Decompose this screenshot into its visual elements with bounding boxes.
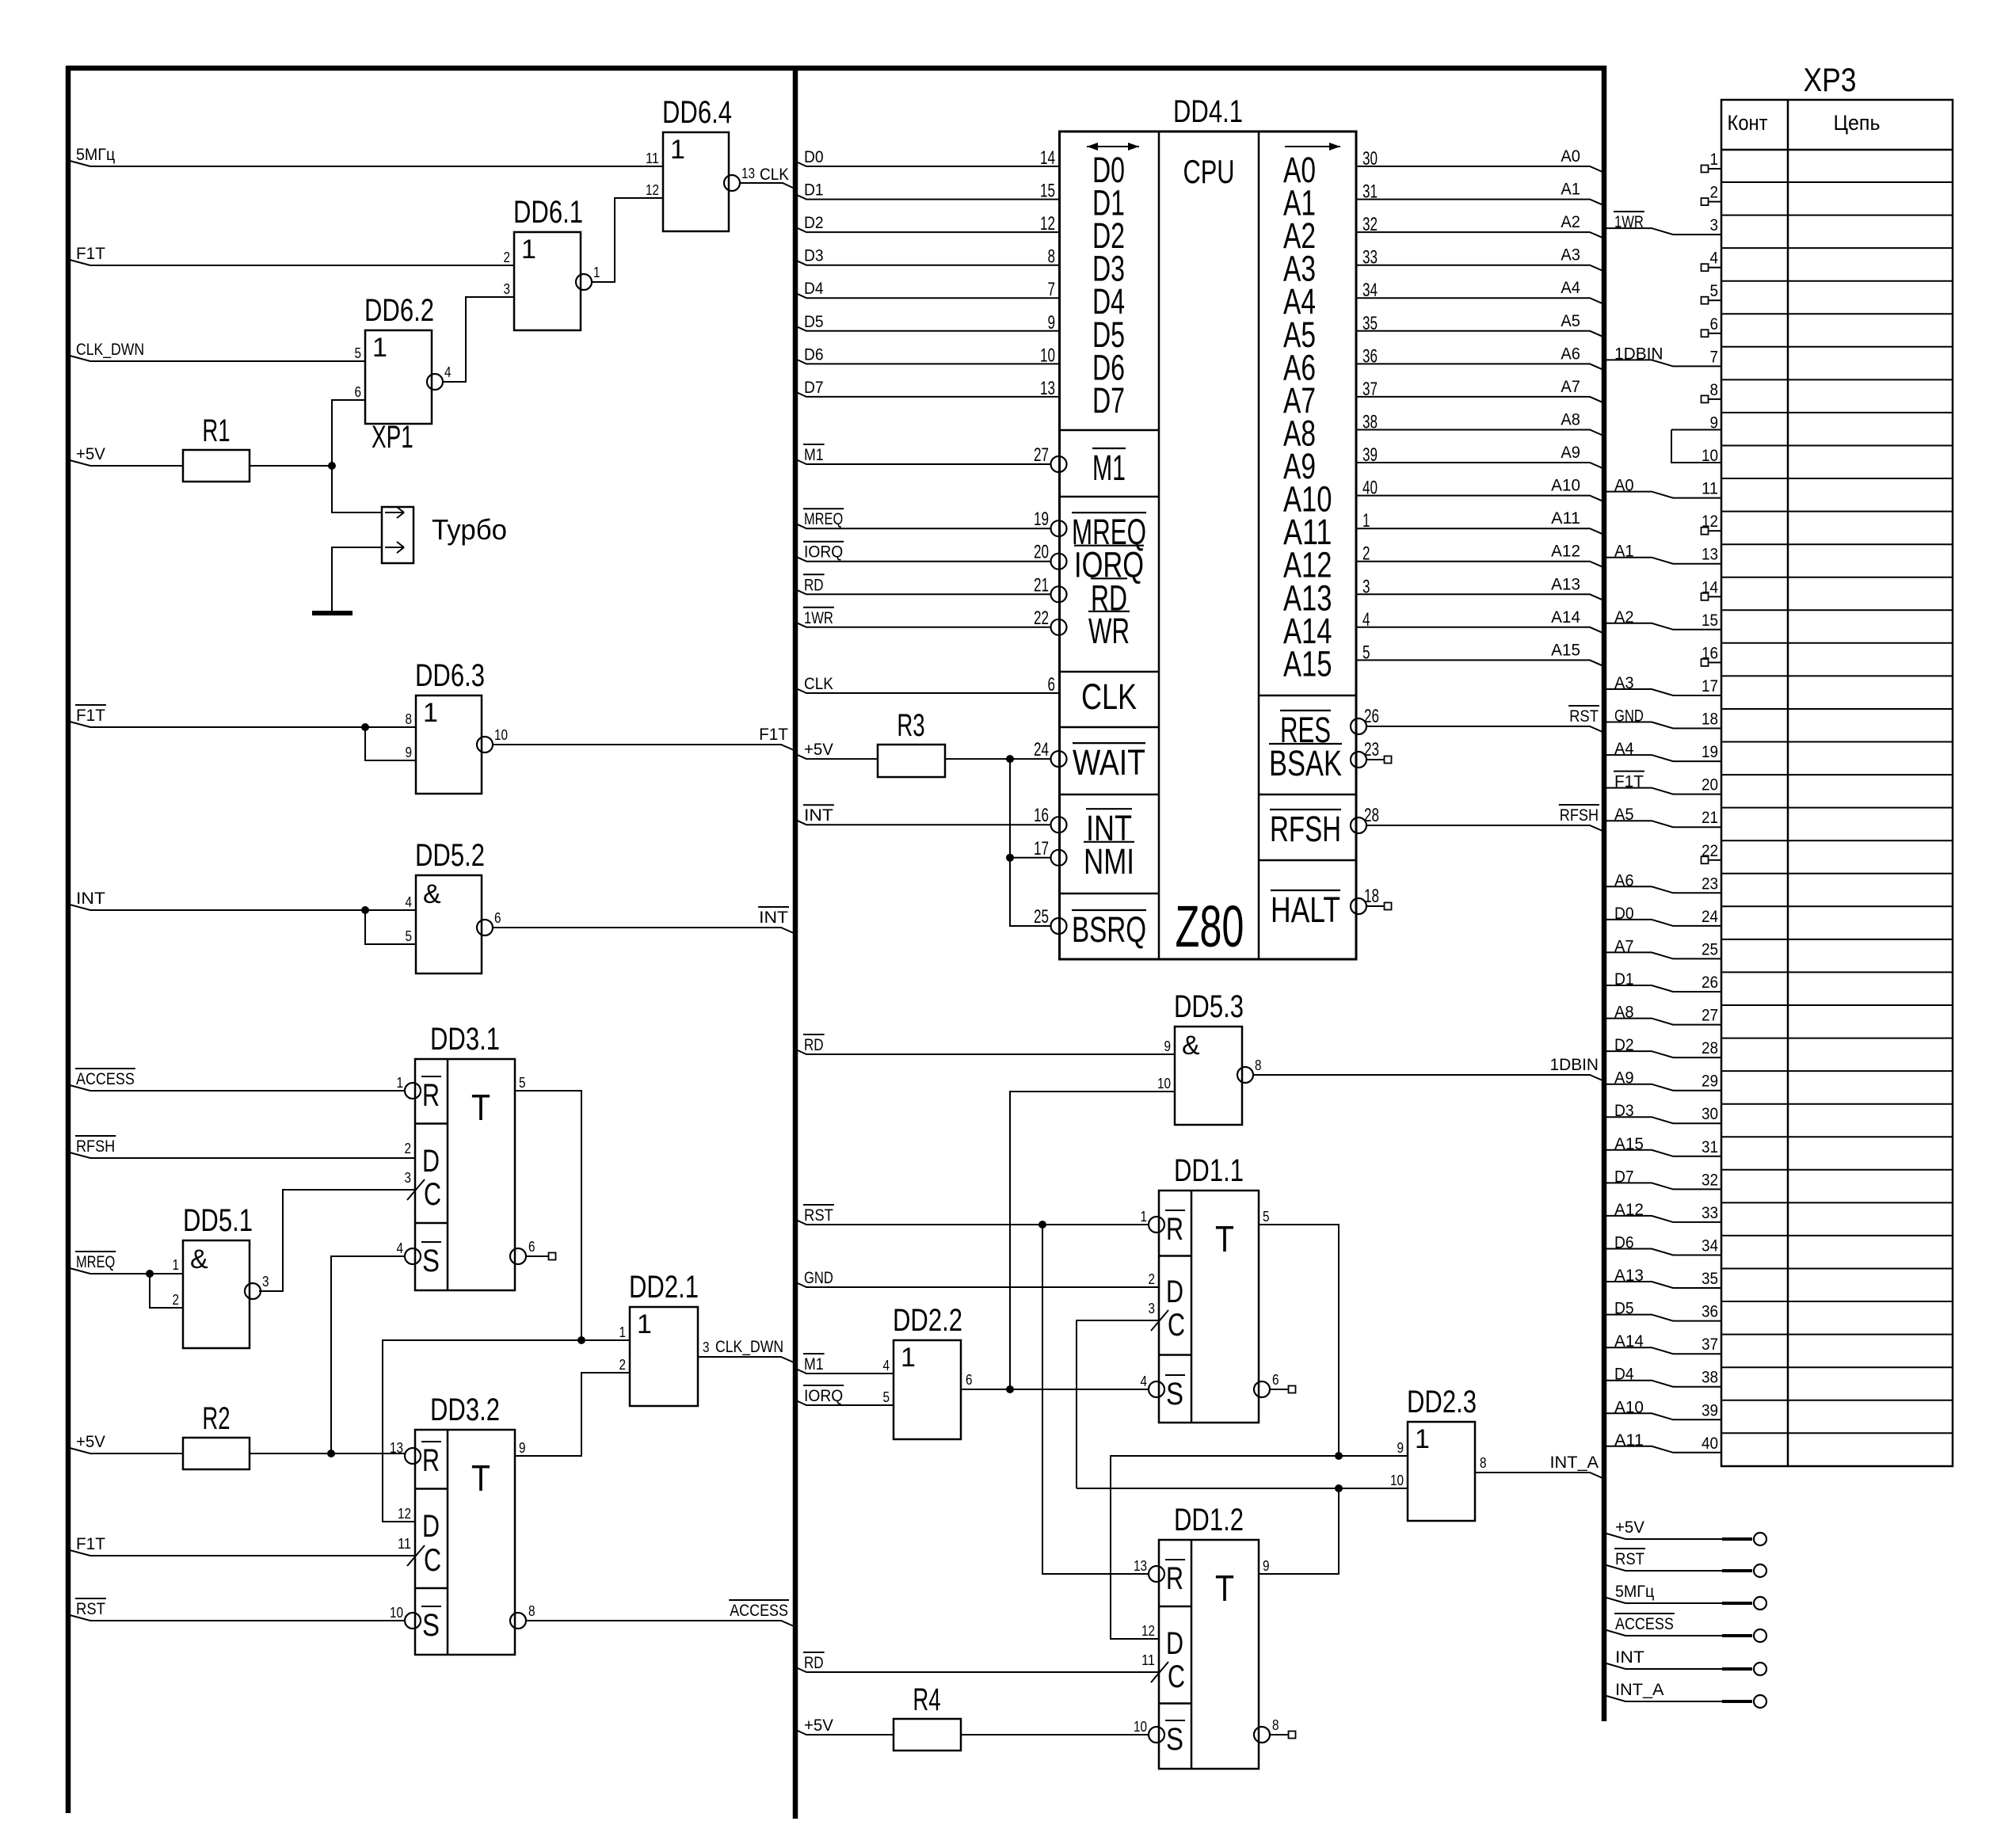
svg-text:10: 10 xyxy=(390,1605,403,1621)
resistor R3 xyxy=(878,745,945,777)
terminal circle INT_A xyxy=(1754,1695,1766,1708)
DD1.2 inverse output pin 8 xyxy=(1254,1727,1270,1743)
svg-text:30: 30 xyxy=(1702,1105,1718,1123)
svg-text:T: T xyxy=(471,1087,490,1128)
wire DD6.4 out to middle bus (CLK) xyxy=(740,183,795,189)
svg-text:A14: A14 xyxy=(1551,608,1580,627)
wire HALT stub xyxy=(1366,905,1385,907)
gate DD2.3 (1) xyxy=(1408,1422,1475,1521)
svg-text:ACCESS: ACCESS xyxy=(1615,1615,1674,1633)
svg-text:XP1: XP1 xyxy=(372,420,413,455)
svg-text:28: 28 xyxy=(1364,805,1379,826)
middle bus xyxy=(793,66,798,1819)
wire GND xyxy=(798,1283,1159,1287)
svg-text:D2: D2 xyxy=(804,214,824,232)
junction DD2.2 out / DD5.3 pin 10 xyxy=(1006,1385,1014,1393)
svg-text:R1: R1 xyxy=(202,413,230,448)
resistor R2 xyxy=(183,1438,250,1469)
CPU right column section dividers xyxy=(1259,695,1356,697)
svg-text:M1: M1 xyxy=(804,446,824,464)
svg-text:8: 8 xyxy=(1480,1455,1487,1471)
svg-text:13: 13 xyxy=(1134,1558,1147,1574)
gate DD6.1 (inverter) xyxy=(514,232,581,330)
svg-text:A4: A4 xyxy=(1561,279,1580,297)
svg-text:D1: D1 xyxy=(804,181,824,200)
svg-text:20: 20 xyxy=(1702,776,1718,794)
wire 1WR xyxy=(798,623,1050,627)
svg-text:CPU: CPU xyxy=(1183,153,1234,190)
wire MREQ xyxy=(70,1268,183,1274)
svg-text:5: 5 xyxy=(519,1075,526,1091)
svg-text:18: 18 xyxy=(1702,711,1718,729)
svg-text:16: 16 xyxy=(1702,644,1718,662)
resistor R4 xyxy=(894,1719,961,1751)
junction INT xyxy=(361,906,369,914)
svg-text:A12: A12 xyxy=(1551,543,1580,561)
svg-text:A6: A6 xyxy=(1561,345,1580,363)
flip-flop DD1.2 xyxy=(1159,1540,1259,1769)
svg-text:DD1.1: DD1.1 xyxy=(1174,1153,1244,1188)
svg-text:CLK_DWN: CLK_DWN xyxy=(715,1338,783,1356)
svg-text:5: 5 xyxy=(406,928,413,944)
wire DD6.2 out to DD6.1 pin 3 xyxy=(443,297,514,382)
flip-flop DD3.2 xyxy=(415,1430,515,1655)
gate DD5.1 (AND-NOT) xyxy=(183,1240,250,1348)
wire +5V junction to XP1 pin 1 xyxy=(332,466,382,512)
svg-text:DD2.3: DD2.3 xyxy=(1407,1385,1477,1419)
svg-text:32: 32 xyxy=(1702,1171,1718,1189)
wire DD1.1 C from Q line xyxy=(1077,1320,1159,1488)
svg-text:A11: A11 xyxy=(1551,509,1580,528)
wire RST down to DD1.2 pin 13 xyxy=(1042,1225,1149,1574)
junction DD2.1 pin1 xyxy=(577,1336,585,1344)
svg-text:DD6.1: DD6.1 xyxy=(513,195,583,230)
svg-text:9: 9 xyxy=(519,1440,526,1456)
svg-text:DD2.2: DD2.2 xyxy=(893,1303,962,1338)
svg-text:INT_A: INT_A xyxy=(1550,1454,1599,1472)
svg-text:3: 3 xyxy=(1149,1301,1156,1316)
wire D5 xyxy=(798,327,1060,331)
inversion bubble DD5.2 out xyxy=(477,920,493,935)
svg-text:R2: R2 xyxy=(202,1401,230,1436)
wire branch to DD3.2 pin 12 (D) xyxy=(383,1340,581,1522)
svg-text:9: 9 xyxy=(1263,1558,1270,1574)
svg-text:24: 24 xyxy=(1034,739,1049,760)
svg-text:DD3.1: DD3.1 xyxy=(430,1022,500,1057)
inversion bubble DD5.1 out xyxy=(245,1283,261,1299)
wire R1 to junction xyxy=(250,465,332,467)
svg-text:DD3.2: DD3.2 xyxy=(430,1393,500,1427)
svg-text:RD: RD xyxy=(804,1654,824,1672)
svg-text:BSAK: BSAK xyxy=(1269,743,1342,783)
junction RST xyxy=(1038,1221,1046,1229)
svg-text:RST: RST xyxy=(804,1206,833,1225)
wire F1T xyxy=(493,745,794,750)
svg-text:5: 5 xyxy=(883,1389,890,1405)
svg-text:8: 8 xyxy=(1710,381,1719,399)
svg-text:RFSH: RFSH xyxy=(1270,809,1341,849)
svg-text:17: 17 xyxy=(1034,838,1049,859)
wire DD5.1 out to DD3.1 C pin 3 xyxy=(259,1190,415,1291)
inversion bubble DD5.3 out xyxy=(1237,1067,1253,1083)
svg-text:2: 2 xyxy=(1149,1271,1156,1287)
svg-text:A15: A15 xyxy=(1283,643,1332,684)
svg-text:36: 36 xyxy=(1702,1303,1718,1321)
svg-text:16: 16 xyxy=(1034,805,1049,826)
svg-text:5: 5 xyxy=(1710,282,1719,300)
svg-text:8: 8 xyxy=(1272,1717,1279,1733)
wire +5V to R3 xyxy=(798,755,878,759)
gate DD6.2 (inverter) xyxy=(365,330,432,424)
svg-text:DD6.3: DD6.3 xyxy=(415,658,485,693)
inversion bubble DD6.4 out xyxy=(724,175,740,191)
svg-text:25: 25 xyxy=(1702,940,1718,958)
svg-text:5МГц: 5МГц xyxy=(1615,1583,1654,1601)
wire DD3.2 pin 9 to DD2.1 pin 2 xyxy=(515,1373,630,1456)
wire M1 xyxy=(798,1370,894,1374)
wire 5МГц xyxy=(70,161,663,166)
wire D6 xyxy=(798,360,1060,364)
XP1 pin 2 arrow xyxy=(385,547,404,548)
svg-text:RD: RD xyxy=(804,576,824,594)
svg-text:5: 5 xyxy=(355,345,362,361)
CPU left column section dividers xyxy=(1060,429,1160,432)
wire IORQ xyxy=(798,558,1050,562)
terminal circle RST xyxy=(1754,1564,1766,1577)
svg-text:12: 12 xyxy=(1141,1623,1155,1639)
wire R4 to DD1.2 pin 10 xyxy=(961,1734,1149,1735)
connector XP3 table xyxy=(1721,100,1953,1466)
svg-text:D4: D4 xyxy=(804,280,824,298)
svg-text:R4: R4 xyxy=(913,1682,940,1717)
svg-text:R: R xyxy=(1166,1561,1183,1596)
svg-text:9: 9 xyxy=(406,745,413,760)
svg-text:1: 1 xyxy=(1141,1209,1148,1225)
address bus arrow xyxy=(1285,146,1340,147)
svg-text:Z80: Z80 xyxy=(1176,893,1244,959)
svg-text:12: 12 xyxy=(398,1506,411,1522)
svg-text:WR: WR xyxy=(1088,611,1130,651)
wire 1DBIN xyxy=(1253,1075,1603,1080)
svg-text:R3: R3 xyxy=(897,708,924,743)
svg-text:10: 10 xyxy=(1134,1719,1147,1735)
svg-text:WAIT: WAIT xyxy=(1073,742,1145,783)
svg-text:34: 34 xyxy=(1702,1237,1718,1255)
svg-text:11: 11 xyxy=(1702,480,1718,498)
wire 5МГц xyxy=(1606,1598,1722,1603)
gate DD2.1 (1) xyxy=(630,1307,698,1406)
svg-text:ACCESS: ACCESS xyxy=(76,1070,135,1088)
svg-text:R: R xyxy=(1166,1212,1183,1247)
wire D3 xyxy=(798,261,1060,265)
svg-text:35: 35 xyxy=(1702,1270,1718,1288)
svg-text:6: 6 xyxy=(1048,674,1056,695)
svg-text:39: 39 xyxy=(1702,1401,1718,1419)
svg-text:4: 4 xyxy=(406,894,413,910)
svg-text:18: 18 xyxy=(1364,886,1379,907)
svg-text:D5: D5 xyxy=(804,313,824,331)
wire DD1.2 pin 9 up to pin10 line xyxy=(1259,1488,1339,1574)
svg-text:13: 13 xyxy=(1702,546,1718,564)
svg-text:C: C xyxy=(1168,1659,1185,1694)
svg-text:F1T: F1T xyxy=(759,726,788,744)
svg-text:A0: A0 xyxy=(1561,147,1580,166)
wire DD3.1 pin5 to DD2.1 pin 1 and DD3.2 D xyxy=(515,1091,630,1340)
svg-text:21: 21 xyxy=(1702,809,1718,827)
wire RD xyxy=(798,1050,1175,1054)
svg-text:9: 9 xyxy=(1397,1440,1404,1456)
svg-text:15: 15 xyxy=(1040,181,1055,202)
svg-text:IORQ: IORQ xyxy=(804,543,843,562)
junction NMI xyxy=(1006,854,1014,862)
svg-text:C: C xyxy=(424,1543,441,1578)
wire RFSH xyxy=(70,1153,415,1158)
wire MREQ to pin 2 xyxy=(150,1274,183,1308)
svg-text:1: 1 xyxy=(521,234,536,265)
svg-text:8: 8 xyxy=(528,1603,535,1619)
svg-text:7: 7 xyxy=(1048,279,1056,300)
wire IORQ xyxy=(798,1401,894,1405)
svg-text:4: 4 xyxy=(1710,250,1719,268)
svg-text:T: T xyxy=(471,1457,490,1499)
svg-text:Конт: Конт xyxy=(1728,111,1768,135)
wire RST xyxy=(1366,726,1603,732)
svg-text:4: 4 xyxy=(444,364,452,380)
svg-text:C: C xyxy=(424,1177,441,1212)
junction F1T xyxy=(361,723,369,731)
svg-text:RST: RST xyxy=(1569,707,1599,726)
svg-text:+5V: +5V xyxy=(804,1716,833,1735)
svg-text:8: 8 xyxy=(406,711,413,727)
svg-text:Цепь: Цепь xyxy=(1834,111,1881,135)
svg-text:+5V: +5V xyxy=(804,741,833,759)
wire MREQ xyxy=(798,524,1050,528)
svg-text:M1: M1 xyxy=(804,1355,824,1374)
svg-text:INT: INT xyxy=(76,890,105,908)
svg-text:5МГц: 5МГц xyxy=(76,146,115,164)
svg-text:MREQ: MREQ xyxy=(76,1253,115,1271)
svg-text:23: 23 xyxy=(1364,739,1379,760)
wire INT xyxy=(1606,1663,1722,1669)
svg-text:12: 12 xyxy=(1040,213,1055,234)
svg-text:2: 2 xyxy=(173,1292,180,1308)
svg-text:S: S xyxy=(1166,1722,1183,1757)
DD3.2 inverse output pin 8 xyxy=(510,1613,526,1629)
wire RD xyxy=(798,590,1050,594)
terminal circle ACCESS xyxy=(1754,1629,1766,1642)
wire F1T to pin 9 xyxy=(365,727,416,760)
svg-text:RD: RD xyxy=(804,1036,824,1054)
svg-text:1: 1 xyxy=(619,1324,627,1340)
svg-text:20: 20 xyxy=(1034,542,1049,563)
svg-text:&: & xyxy=(190,1244,208,1274)
svg-text:1WR: 1WR xyxy=(804,609,833,627)
wire RST xyxy=(1606,1565,1722,1571)
junction on pin10 line xyxy=(1335,1484,1343,1492)
flip-flop DD3.1 xyxy=(415,1059,515,1290)
svg-text:A3: A3 xyxy=(1561,246,1580,265)
svg-text:DD6.2: DD6.2 xyxy=(364,293,434,328)
wire F1T xyxy=(70,722,416,727)
svg-text:C: C xyxy=(1168,1308,1185,1343)
svg-text:A9: A9 xyxy=(1561,444,1580,462)
svg-text:D0: D0 xyxy=(804,148,824,166)
svg-text:8: 8 xyxy=(1048,246,1056,268)
svg-text:28: 28 xyxy=(1702,1039,1718,1057)
svg-text:D: D xyxy=(1166,1626,1183,1661)
svg-text:3: 3 xyxy=(1710,216,1719,234)
XP1 pin 1 arrow xyxy=(385,512,404,513)
svg-text:D7: D7 xyxy=(804,379,824,397)
svg-text:3: 3 xyxy=(504,281,511,297)
svg-text:A10: A10 xyxy=(1551,477,1580,495)
junction MREQ xyxy=(146,1270,154,1278)
wire M1 xyxy=(798,460,1050,464)
wire ACCESS xyxy=(1606,1630,1722,1636)
wire D0 xyxy=(798,162,1060,166)
svg-text:10: 10 xyxy=(1040,345,1055,366)
svg-text:13: 13 xyxy=(741,166,755,181)
data bus bidirectional arrow xyxy=(1087,146,1139,147)
svg-text:T: T xyxy=(1215,1568,1234,1609)
svg-text:2: 2 xyxy=(504,250,511,265)
svg-text:XP3: XP3 xyxy=(1804,61,1857,98)
svg-text:4: 4 xyxy=(397,1240,404,1256)
svg-text:F1T: F1T xyxy=(76,245,105,263)
svg-text:BSRQ: BSRQ xyxy=(1072,909,1146,950)
svg-text:F1T: F1T xyxy=(76,707,105,725)
svg-text:INT: INT xyxy=(759,909,788,927)
wire INT_A xyxy=(1475,1473,1603,1478)
svg-text:17: 17 xyxy=(1702,677,1718,695)
svg-text:6: 6 xyxy=(1272,1372,1279,1388)
wire INT xyxy=(798,821,1050,825)
svg-text:NMI: NMI xyxy=(1084,841,1134,882)
svg-text:6: 6 xyxy=(528,1239,535,1255)
wire +5V to R4 xyxy=(798,1731,894,1735)
svg-text:INT: INT xyxy=(1615,1648,1644,1667)
svg-text:1: 1 xyxy=(637,1309,652,1339)
wire BSAK stub xyxy=(1366,759,1385,760)
svg-text:+5V: +5V xyxy=(76,445,105,463)
wire +5V xyxy=(70,1448,183,1454)
svg-text:MREQ: MREQ xyxy=(804,510,843,528)
svg-text:D7: D7 xyxy=(1092,380,1125,421)
DD3.1 inverse output pin 6 xyxy=(510,1248,526,1264)
svg-text:25: 25 xyxy=(1034,906,1049,928)
svg-text:23: 23 xyxy=(1702,874,1718,893)
svg-text:1: 1 xyxy=(901,1343,916,1373)
svg-text:13: 13 xyxy=(1040,378,1055,399)
inversion bubble DD6.1 out xyxy=(576,274,592,290)
svg-text:M1: M1 xyxy=(1092,448,1126,488)
svg-text:22: 22 xyxy=(1702,842,1718,860)
wire DD2.1 out to middle bus xyxy=(698,1357,794,1362)
right bus xyxy=(1602,66,1607,1721)
wire RST xyxy=(70,1615,405,1621)
svg-text:21: 21 xyxy=(1034,574,1049,596)
inversion bubble DD6.2 out xyxy=(427,374,443,390)
gate DD6.3 (inverter) xyxy=(416,695,482,794)
svg-text:1: 1 xyxy=(1710,150,1719,169)
svg-text:38: 38 xyxy=(1702,1369,1718,1387)
wire D4 xyxy=(798,294,1060,298)
svg-text:7: 7 xyxy=(1710,348,1719,366)
inversion bubble DD6.3 out xyxy=(477,737,493,752)
wire R2 to DD3.2 pin 13 xyxy=(250,1453,405,1454)
svg-text:R: R xyxy=(422,1078,440,1113)
svg-text:A1: A1 xyxy=(1561,181,1580,199)
svg-text:ACCESS: ACCESS xyxy=(730,1602,788,1620)
svg-text:2: 2 xyxy=(1710,184,1719,202)
square terminal DD3.1 pin 6 xyxy=(526,1255,549,1257)
svg-text:DD5.1: DD5.1 xyxy=(183,1203,253,1238)
svg-text:&: & xyxy=(423,879,441,909)
svg-text:DD5.2: DD5.2 xyxy=(415,838,485,873)
wire RFSH xyxy=(1366,825,1603,831)
svg-text:27: 27 xyxy=(1034,444,1049,466)
svg-text:A2: A2 xyxy=(1561,213,1580,231)
svg-text:6: 6 xyxy=(494,910,501,926)
svg-text:14: 14 xyxy=(1040,147,1055,169)
svg-text:5: 5 xyxy=(1263,1209,1270,1225)
svg-text:14: 14 xyxy=(1702,578,1718,596)
svg-text:1: 1 xyxy=(593,265,600,280)
svg-text:2: 2 xyxy=(405,1141,412,1156)
terminal circle +5V xyxy=(1754,1533,1766,1545)
svg-text:A15: A15 xyxy=(1551,641,1580,659)
svg-text:13: 13 xyxy=(390,1440,403,1456)
svg-text:GND: GND xyxy=(804,1269,833,1287)
svg-text:2: 2 xyxy=(619,1357,627,1373)
svg-text:4: 4 xyxy=(1141,1374,1148,1389)
wire +5V xyxy=(70,460,183,466)
wire F1T xyxy=(70,260,514,265)
svg-text:24: 24 xyxy=(1702,908,1718,926)
svg-text:D: D xyxy=(1166,1274,1183,1309)
gate DD5.2 (AND-NOT) xyxy=(416,875,482,973)
svg-text:6: 6 xyxy=(1710,315,1719,333)
svg-text:+5V: +5V xyxy=(1615,1518,1644,1537)
svg-text:31: 31 xyxy=(1702,1138,1718,1156)
connector XP1 xyxy=(382,507,413,563)
svg-text:6: 6 xyxy=(966,1372,973,1388)
svg-text:DD5.3: DD5.3 xyxy=(1174,989,1244,1024)
svg-text:29: 29 xyxy=(1702,1073,1718,1091)
svg-text:1: 1 xyxy=(423,698,438,728)
svg-text:INT: INT xyxy=(804,806,833,825)
svg-text:CLK_DWN: CLK_DWN xyxy=(76,341,144,359)
svg-text:9: 9 xyxy=(1164,1038,1172,1054)
svg-text:19: 19 xyxy=(1702,743,1718,761)
svg-text:3: 3 xyxy=(703,1339,710,1355)
wire RST xyxy=(798,1221,1149,1225)
svg-text:RFSH: RFSH xyxy=(76,1137,115,1156)
svg-text:3: 3 xyxy=(262,1274,269,1290)
svg-text:+5V: +5V xyxy=(76,1433,105,1451)
svg-text:A8: A8 xyxy=(1561,411,1580,429)
svg-text:1: 1 xyxy=(1415,1424,1430,1454)
svg-text:Турбо: Турбо xyxy=(432,513,507,546)
wire junction up to DD6.2 pin 6 xyxy=(332,400,365,466)
terminal circle INT xyxy=(1754,1663,1766,1675)
svg-text:11: 11 xyxy=(646,150,659,166)
svg-text:33: 33 xyxy=(1702,1204,1718,1222)
svg-text:11: 11 xyxy=(398,1536,411,1552)
svg-text:11: 11 xyxy=(1141,1652,1155,1668)
gate DD6.4 (inverter) xyxy=(663,132,729,231)
svg-text:F1T: F1T xyxy=(76,1535,105,1553)
